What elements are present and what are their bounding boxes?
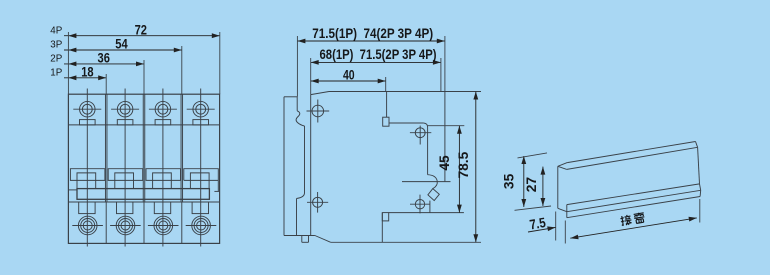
svg-text:68(1P) 71.5(2P 3P 4P): 68(1P) 71.5(2P 3P 4P) — [320, 47, 437, 62]
svg-text:71.5(1P) 74(2P 3P 4P): 71.5(1P) 74(2P 3P 4P) — [312, 26, 433, 41]
svg-text:18: 18 — [81, 64, 94, 79]
svg-text:1P: 1P — [50, 68, 62, 79]
svg-text:7.5: 7.5 — [529, 215, 548, 232]
svg-text:45: 45 — [437, 155, 452, 171]
svg-text:2P: 2P — [50, 54, 62, 65]
svg-text:27: 27 — [524, 177, 539, 193]
svg-text:78.5: 78.5 — [456, 151, 471, 178]
svg-text:40: 40 — [343, 67, 355, 82]
svg-text:54: 54 — [115, 37, 128, 52]
svg-text:72: 72 — [135, 22, 148, 37]
svg-text:35: 35 — [502, 173, 517, 189]
svg-text:3P: 3P — [50, 40, 62, 51]
svg-text:36: 36 — [98, 51, 111, 66]
svg-text:4P: 4P — [50, 25, 62, 36]
